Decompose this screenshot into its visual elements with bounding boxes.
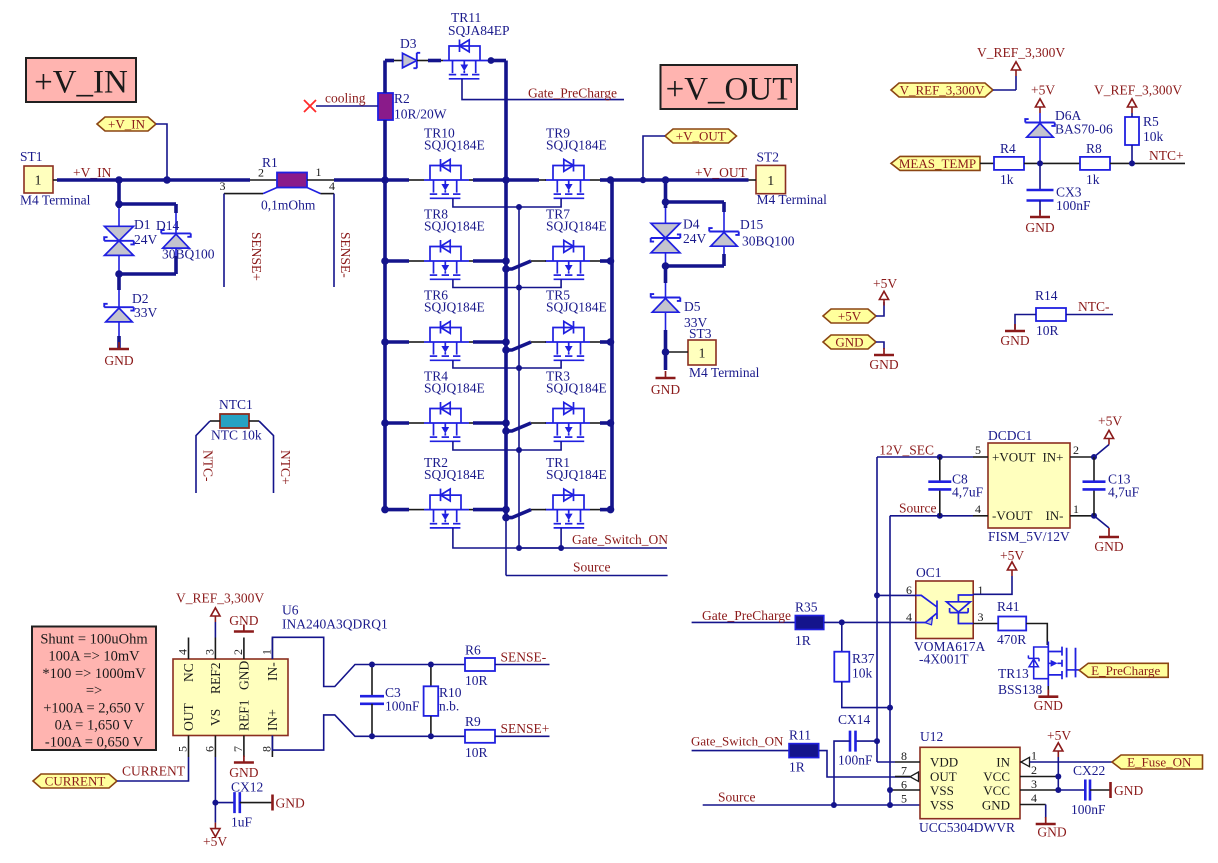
wire row TR8 left [381, 257, 424, 265]
svg-text:ST3: ST3 [689, 326, 712, 341]
svg-text:IN+: IN+ [265, 709, 280, 731]
n-mosfet TR6 SQJQ184E [424, 288, 485, 361]
n-mosfet TR3 SQJQ184E [545, 369, 607, 442]
svg-text:SQJQ184E: SQJQ184E [424, 467, 485, 482]
svg-text:SQJQ184E: SQJQ184E [546, 381, 607, 396]
wire row TR6 right to source bus [469, 338, 510, 346]
svg-text:2: 2 [1073, 443, 1079, 457]
n-mosfet TR2 SQJQ184E [424, 455, 485, 528]
svg-text:8: 8 [901, 749, 907, 763]
svg-text:MEAS_TEMP: MEAS_TEMP [899, 156, 976, 171]
wire row TR10 left [381, 176, 424, 184]
capacitor CX14 100nF [831, 712, 880, 808]
thermistor NTC1 NTC 10k [196, 397, 274, 493]
capacitor CX12 1uF [215, 780, 272, 830]
ground GND at CX12 (sideways) [273, 795, 305, 811]
svg-text:470R: 470R [997, 632, 1026, 647]
svg-text:3: 3 [203, 649, 217, 655]
svg-text:*100 => 1000mV: *100 => 1000mV [42, 666, 146, 682]
svg-text:D15: D15 [740, 217, 763, 232]
svg-text:100nF: 100nF [385, 699, 420, 714]
svg-text:+V_OUT: +V_OUT [695, 165, 748, 180]
svg-text:CX22: CX22 [1073, 763, 1105, 778]
svg-text:=>: => [86, 683, 102, 699]
svg-text:R5: R5 [1143, 114, 1159, 129]
svg-text:1k: 1k [1086, 172, 1100, 187]
net Gate_PreCharge (top) [462, 79, 624, 101]
power +5V above D6A [1031, 83, 1055, 123]
capacitor CX3 100nF [1027, 163, 1092, 215]
wire left bus top (D3 anode down to R2, R2 to main bus) [383, 61, 387, 181]
gate wire TR1 [516, 528, 561, 551]
svg-text:Gate_PreCharge: Gate_PreCharge [702, 608, 791, 623]
power +5V below U6 [203, 823, 227, 849]
svg-text:SQJQ184E: SQJQ184E [424, 381, 485, 396]
svg-text:7: 7 [231, 746, 245, 752]
power +5V at U12 [1047, 728, 1071, 793]
wire row TR4 right to source bus [469, 419, 510, 427]
gate driver U12 UCC5304DWVR [890, 729, 1058, 835]
svg-text:10R: 10R [465, 673, 488, 688]
svg-text:GND: GND [1094, 539, 1123, 554]
ground GND under CX3 [1025, 210, 1054, 235]
ground GND under ST3 [651, 371, 680, 397]
svg-text:1R: 1R [789, 760, 805, 775]
wire row TR9 left from source bus [506, 178, 546, 182]
svg-text:5: 5 [975, 443, 981, 457]
svg-text:GND: GND [835, 335, 863, 350]
svg-text:M4 Terminal: M4 Terminal [20, 193, 91, 208]
svg-text:-4X001T: -4X001T [919, 652, 969, 667]
net flag +V_IN [97, 117, 167, 181]
svg-text:SENSE-: SENSE- [501, 650, 547, 665]
wire R1 to left bus [334, 178, 385, 182]
net Gate_Switch_ON wire (right section) [691, 734, 789, 751]
wire left vertical bus [383, 180, 387, 510]
svg-text:8: 8 [260, 746, 274, 752]
svg-text:+5V: +5V [873, 276, 897, 291]
net flag GND [823, 335, 884, 350]
svg-text:12V_SEC: 12V_SEC [879, 443, 934, 458]
net label NTC+ (right leg) [278, 450, 293, 485]
svg-text:E_Fuse_ON: E_Fuse_ON [1127, 755, 1192, 770]
wire row TR7 left from source bus [502, 261, 546, 273]
ground GND at U6 pin7 [229, 756, 258, 781]
wire OC1 pin6 to 12V_SEC [874, 592, 916, 598]
node SENSE+ kelvin [224, 188, 277, 288]
svg-text:Shunt = 100uOhm: Shunt = 100uOhm [40, 632, 148, 648]
svg-text:OUT: OUT [181, 703, 196, 731]
net Gate_PreCharge wire (right section) [692, 608, 795, 623]
svg-text:30BQ100: 30BQ100 [742, 234, 795, 249]
svg-text:Source: Source [573, 560, 611, 575]
svg-text:BAS70-06: BAS70-06 [1055, 122, 1113, 137]
svg-text:1: 1 [767, 174, 774, 189]
svg-text:NTC 10k: NTC 10k [211, 428, 262, 443]
wire SENSE+ line [372, 735, 465, 737]
svg-text:DCDC1: DCDC1 [988, 428, 1032, 443]
svg-text:SQJA84EP: SQJA84EP [448, 23, 510, 38]
terminal ST3 [662, 326, 760, 380]
svg-text:U6: U6 [282, 603, 299, 618]
svg-text:E_PreCharge: E_PreCharge [1091, 663, 1160, 678]
ground GND at DCDC IN- [1094, 516, 1124, 554]
svg-text:100nF: 100nF [1056, 198, 1091, 213]
svg-text:5: 5 [901, 792, 907, 806]
svg-text:VDD: VDD [930, 755, 958, 770]
resistor R8 1k [1080, 141, 1185, 187]
svg-text:1: 1 [1031, 749, 1037, 763]
svg-text:CX12: CX12 [231, 780, 263, 795]
svg-text:R11: R11 [789, 728, 811, 743]
net label NTC- (left leg) [201, 450, 216, 482]
n-mosfet TR13 BSS138 [998, 642, 1076, 698]
svg-text:V_REF_3,300V: V_REF_3,300V [900, 83, 985, 98]
wire row TR5 left from source bus [502, 342, 546, 354]
ground GND at CX22 (sideways) [1111, 782, 1144, 798]
svg-text:cooling: cooling [325, 91, 366, 106]
svg-text:-100A = 0,650 V: -100A = 0,650 V [45, 735, 144, 751]
svg-text:30BQ100: 30BQ100 [162, 247, 215, 262]
svg-text:D1: D1 [134, 217, 151, 232]
svg-text:4: 4 [975, 502, 981, 516]
n-mosfet TR7 SQJQ184E [545, 207, 607, 280]
n-mosfet TR9 SQJQ184E [545, 126, 607, 199]
net label NTC+ [1149, 148, 1184, 163]
terminal ST1 [20, 149, 91, 208]
svg-text:1: 1 [1073, 502, 1079, 516]
svg-text:+V_IN: +V_IN [108, 117, 146, 132]
schottky diode D6A BAS70-06 [1025, 108, 1113, 163]
wire right vertical bus [610, 180, 614, 510]
svg-text:V_REF_3,300V: V_REF_3,300V [176, 591, 264, 606]
wire gate bus [518, 207, 520, 548]
wire TR11 to mid bus [488, 57, 506, 64]
ground GND at U6 pin2 [229, 613, 258, 632]
gate wire TR4 [453, 441, 519, 450]
resistor R41 470R [973, 599, 1047, 647]
svg-text:24V: 24V [683, 231, 707, 246]
gate wire TR5 [516, 360, 561, 371]
gate wire TR2 [453, 528, 519, 548]
svg-text:VCC: VCC [983, 769, 1010, 784]
svg-text:SQJQ184E: SQJQ184E [546, 300, 607, 315]
wire U6 IN- to filter [272, 637, 372, 686]
resistor R4 1k [994, 141, 1080, 187]
ground GND at R14 [1000, 324, 1029, 348]
svg-text:SQJQ184E: SQJQ184E [546, 138, 607, 153]
svg-text:R41: R41 [997, 599, 1020, 614]
svg-text:2: 2 [231, 649, 245, 655]
svg-text:V_REF_3,300V: V_REF_3,300V [977, 45, 1065, 60]
svg-text:NTC-: NTC- [201, 450, 216, 482]
wire main bus ST1 to R1 [57, 178, 277, 182]
svg-text:6: 6 [901, 778, 907, 792]
svg-text:ST2: ST2 [757, 150, 780, 165]
ground GND under TR13 [1034, 686, 1063, 713]
svg-text:100nF: 100nF [838, 753, 873, 768]
net Gate_Switch_ON [519, 532, 668, 551]
gate wire TR3 [516, 441, 561, 453]
svg-text:3: 3 [220, 179, 226, 193]
svg-text:1: 1 [260, 649, 274, 655]
svg-text:IN+: IN+ [1042, 450, 1063, 465]
svg-text:M4 Terminal: M4 Terminal [689, 365, 760, 380]
svg-text:R35: R35 [795, 600, 818, 615]
svg-text:OC1: OC1 [916, 565, 942, 580]
svg-text:GND: GND [1000, 333, 1029, 348]
wire main bus to ST2 [612, 176, 749, 184]
svg-text:NTC+: NTC+ [1149, 148, 1184, 163]
svg-text:-VOUT: -VOUT [992, 508, 1032, 523]
svg-text:R37: R37 [852, 651, 875, 666]
wire mid Source bus [504, 61, 508, 576]
svg-text:10k: 10k [852, 666, 873, 681]
n-mosfet TR4 SQJQ184E [424, 369, 485, 442]
wire VSS pin6 junction [887, 787, 893, 793]
svg-text:GND: GND [229, 613, 258, 628]
svg-text:CX14: CX14 [838, 712, 871, 727]
svg-text:GND: GND [982, 798, 1010, 813]
svg-text:100nF: 100nF [1071, 802, 1106, 817]
zener diode D5 33V [651, 266, 708, 370]
svg-text:1: 1 [699, 347, 706, 362]
label box +V_IN [26, 58, 136, 102]
resistor R6 10R [465, 643, 550, 689]
power V_REF_3,300V at U6 pin3 [176, 591, 264, 638]
net label SENSE+ [501, 721, 550, 736]
net flag +5V [823, 302, 884, 324]
svg-text:+V_OUT: +V_OUT [676, 129, 726, 144]
svg-text:4,7uF: 4,7uF [1108, 485, 1140, 500]
terminal ST2 [749, 150, 828, 207]
svg-text:V_REF_3,300V: V_REF_3,300V [1094, 83, 1182, 98]
svg-text:0A = 1,650 V: 0A = 1,650 V [55, 718, 134, 734]
svg-text:FISM_5V/12V: FISM_5V/12V [988, 529, 1070, 544]
svg-text:D14: D14 [156, 218, 179, 233]
svg-text:4: 4 [176, 649, 190, 655]
svg-text:+V_IN: +V_IN [73, 165, 112, 180]
svg-text:+5V: +5V [838, 309, 862, 324]
svg-text:VS: VS [208, 709, 223, 726]
svg-text:R4: R4 [1000, 141, 1016, 156]
wire row TR3 left from source bus [502, 423, 546, 435]
label box +V_OUT [661, 65, 798, 109]
schottky diode D14 30BQ100 [115, 200, 215, 278]
resistor R35 1R [795, 600, 916, 649]
svg-text:1: 1 [316, 165, 322, 179]
resistor R5 10k [1125, 114, 1164, 163]
svg-text:10R/20W: 10R/20W [394, 107, 447, 122]
net flag V_REF_3,300V [891, 83, 1016, 98]
svg-text:10R: 10R [1036, 323, 1059, 338]
node SENSE- kelvin [307, 188, 353, 288]
svg-text:INA240A3QDRQ1: INA240A3QDRQ1 [282, 617, 388, 632]
svg-text:IN-: IN- [1045, 508, 1063, 523]
svg-text:Gate_Switch_ON: Gate_Switch_ON [572, 532, 668, 547]
svg-text:+V_OUT: +V_OUT [666, 72, 793, 108]
svg-text:VCC: VCC [983, 783, 1010, 798]
p-mosfet TR11 SQJA84EP [443, 10, 510, 79]
wire row TR2 left [381, 506, 424, 514]
svg-text:M4 Terminal: M4 Terminal [757, 192, 828, 207]
svg-text:2: 2 [258, 166, 264, 180]
svg-text:3: 3 [978, 610, 984, 624]
svg-text:+V_IN: +V_IN [34, 65, 128, 101]
wire row TR10 right to source bus [469, 176, 510, 184]
svg-text:5: 5 [176, 746, 190, 752]
capacitor C3 100nF [360, 662, 420, 740]
svg-text:33V: 33V [134, 305, 158, 320]
svg-text:REF1: REF1 [237, 699, 252, 731]
net flag E_PreCharge [1067, 663, 1169, 678]
resistor R9 10R [465, 714, 550, 760]
svg-text:NTC1: NTC1 [219, 397, 253, 412]
net label SENSE- [501, 650, 547, 665]
net flag MEAS_TEMP [891, 156, 994, 171]
wire row TR8 right to source bus [469, 257, 510, 265]
svg-text:SENSE+: SENSE+ [501, 721, 550, 736]
wire row TR9 right [590, 176, 614, 184]
diode D3 [385, 36, 443, 68]
wire row TR4 left [381, 419, 424, 427]
capacitor C13 4,7uF [1083, 454, 1140, 519]
wire row TR3 right [590, 419, 614, 427]
svg-text:SQJQ184E: SQJQ184E [424, 138, 485, 153]
svg-text:GND: GND [869, 357, 898, 372]
svg-text:IN-: IN- [265, 662, 280, 681]
wire SENSE- line [372, 664, 465, 666]
resistor R14 10R [1015, 288, 1113, 338]
svg-text:BSS138: BSS138 [998, 682, 1043, 697]
svg-text:SQJQ184E: SQJQ184E [546, 467, 607, 482]
svg-text:U12: U12 [920, 729, 943, 744]
TVS diode D1 24V [104, 180, 157, 274]
optocoupler OC1 VOMA617A-4X001T [906, 565, 986, 667]
wire row TR6 left [381, 338, 424, 346]
svg-text:24V: 24V [134, 232, 158, 247]
n-mosfet TR1 SQJQ184E [545, 455, 607, 528]
svg-text:GND: GND [1034, 698, 1063, 713]
n-mosfet TR8 SQJQ184E [424, 207, 485, 280]
svg-text:D3: D3 [400, 36, 417, 51]
TVS diode D4 24V [651, 180, 707, 266]
svg-text:Gate_PreCharge: Gate_PreCharge [528, 86, 617, 101]
net label +V_IN [73, 165, 112, 180]
svg-text:D5: D5 [684, 299, 701, 314]
net flag +V_OUT [643, 129, 737, 181]
gate wire TR7 [516, 279, 561, 290]
zener diode D2 33V [104, 274, 157, 348]
svg-text:R2: R2 [394, 91, 410, 106]
net label CURRENT [122, 764, 186, 779]
svg-text:SENSE+: SENSE+ [249, 232, 264, 281]
resistor R10 n.b. [424, 662, 462, 740]
svg-text:GND: GND [229, 765, 258, 780]
svg-text:R6: R6 [465, 643, 481, 658]
gate wire TR9 [516, 198, 561, 210]
svg-text:SQJQ184E: SQJQ184E [546, 219, 607, 234]
gate wire TR8 [453, 279, 519, 287]
wire row TR5 right [590, 338, 614, 346]
svg-text:R9: R9 [465, 714, 481, 729]
resistor R37 10k [834, 622, 893, 710]
svg-text:+VOUT: +VOUT [992, 450, 1035, 465]
svg-text:1: 1 [35, 174, 42, 189]
ground GND under flag [869, 348, 898, 372]
svg-text:D4: D4 [683, 217, 700, 232]
net flag E_Fuse_ON [1030, 755, 1203, 770]
svg-text:10k: 10k [1143, 129, 1164, 144]
svg-text:10R: 10R [465, 745, 488, 760]
svg-text:+5V: +5V [1000, 548, 1024, 563]
svg-text:+5V: +5V [1047, 728, 1071, 743]
junction at D1 branch [115, 176, 123, 184]
svg-text:+100A = 2,650 V: +100A = 2,650 V [43, 700, 145, 716]
svg-text:R14: R14 [1035, 288, 1058, 303]
svg-text:4,7uF: 4,7uF [952, 485, 984, 500]
power resistor R2 10R/20W [378, 91, 447, 122]
svg-text:VSS: VSS [930, 798, 954, 813]
svg-text:7: 7 [901, 764, 907, 778]
svg-text:SQJQ184E: SQJQ184E [424, 219, 485, 234]
gate wire TR10 [453, 198, 519, 207]
svg-text:+5V: +5V [1031, 83, 1055, 98]
capacitor C8 4,7uF [928, 454, 983, 519]
svg-text:VSS: VSS [930, 783, 954, 798]
wire row TR2 right to source bus [469, 506, 510, 514]
svg-text:GND: GND [237, 661, 252, 690]
svg-text:OUT: OUT [930, 769, 957, 784]
svg-text:2: 2 [1031, 763, 1037, 777]
svg-text:1R: 1R [795, 633, 811, 648]
svg-text:6: 6 [203, 746, 217, 752]
note box shunt calculation [32, 627, 156, 751]
svg-text:NTC+: NTC+ [278, 450, 293, 485]
dc-dc converter DCDC1 FISM_5V/12V [973, 428, 1094, 544]
net Source wire (bottom right) [703, 790, 920, 809]
svg-text:100A => 10mV: 100A => 10mV [48, 649, 140, 665]
svg-text:3: 3 [1031, 777, 1037, 791]
resistor R11 1R [789, 728, 910, 778]
net Source (bottom) [506, 560, 668, 576]
capacitor CX22 100nF [1058, 763, 1110, 817]
wire U6 VS down [212, 757, 218, 823]
n-mosfet TR10 SQJQ184E [424, 126, 485, 199]
ground GND at U12 pin4 [1036, 805, 1067, 840]
n-mosfet TR5 SQJQ184E [545, 288, 607, 361]
svg-text:GND: GND [651, 382, 680, 397]
svg-text:GND: GND [104, 353, 133, 368]
svg-text:NTC-: NTC- [1078, 299, 1110, 314]
svg-text:Source: Source [718, 790, 756, 805]
net 12V_SEC wire [877, 443, 973, 763]
svg-text:SQJQ184E: SQJQ184E [424, 300, 485, 315]
net flag CURRENT [33, 757, 189, 789]
wire row TR7 right [590, 257, 614, 265]
wire VDD corner [877, 761, 895, 763]
svg-text:1k: 1k [1000, 172, 1014, 187]
svg-text:GND: GND [1037, 825, 1066, 840]
svg-text:CURRENT: CURRENT [45, 774, 106, 789]
svg-text:Gate_Switch_ON: Gate_Switch_ON [691, 734, 784, 749]
svg-text:GND: GND [1114, 783, 1143, 798]
net label +V_OUT [695, 165, 748, 180]
power V_REF_3,300V (left) [977, 45, 1065, 90]
svg-text:4: 4 [1031, 791, 1037, 805]
svg-text:R8: R8 [1086, 141, 1102, 156]
op-amp U6 INA240A3QDRQ1 [173, 603, 388, 758]
